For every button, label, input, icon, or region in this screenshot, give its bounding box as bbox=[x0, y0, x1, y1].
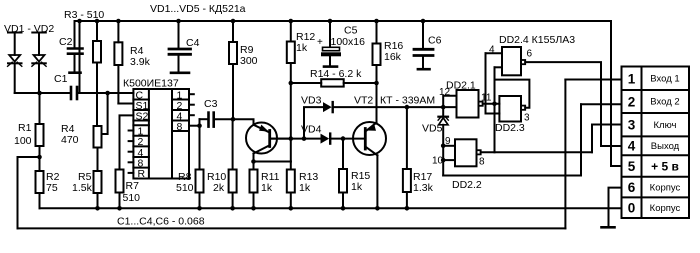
label R17 1.3k bbox=[413, 171, 434, 194]
label C2 bbox=[59, 36, 73, 48]
svg-text:C3: C3 bbox=[204, 98, 218, 110]
junction ground/R7 bbox=[117, 206, 122, 211]
label DD2.3 pin 3 bbox=[495, 113, 530, 135]
svg-text:C5: C5 bbox=[344, 25, 358, 37]
junction VD4/R15/VT2 base bbox=[341, 136, 346, 141]
svg-text:3.9k: 3.9k bbox=[130, 56, 151, 68]
svg-text:DD2.1: DD2.1 bbox=[446, 80, 476, 92]
wire input node C1 line bbox=[15, 92, 71, 94]
wire pin 6 ground drop bbox=[609, 188, 622, 227]
pin stub IC right pin 4 bbox=[189, 114, 194, 116]
svg-text:2k: 2k bbox=[213, 182, 225, 194]
transistor VT2 bbox=[353, 65, 386, 208]
svg-text:+: + bbox=[317, 37, 323, 48]
resistor R14 horizontal bbox=[291, 79, 377, 86]
svg-text:Вход 1: Вход 1 bbox=[650, 74, 679, 85]
resistor R4 3.9k bbox=[114, 21, 133, 104]
svg-text:12: 12 bbox=[439, 87, 451, 98]
wire +5V top rail bbox=[75, 20, 612, 22]
wire VD3 node to DD2.1 inputs bbox=[407, 106, 457, 108]
svg-text:C1: C1 bbox=[54, 73, 68, 85]
svg-text:R7: R7 bbox=[126, 180, 140, 192]
wire +5 riser to pin 5 bbox=[611, 21, 622, 166]
svg-text:3: 3 bbox=[524, 113, 530, 124]
junction ground/R17 bbox=[405, 206, 410, 211]
label R15 1k bbox=[351, 170, 370, 193]
svg-text:8: 8 bbox=[177, 121, 183, 133]
label VD4 bbox=[301, 124, 322, 136]
pin stub IC right pin 1 bbox=[189, 93, 194, 95]
svg-text:1k: 1k bbox=[261, 182, 273, 194]
svg-text:8: 8 bbox=[479, 157, 485, 168]
label VD3 bbox=[301, 95, 322, 107]
resistor R2 bbox=[36, 171, 44, 208]
junction DD2.1 inputs/VD5 bbox=[441, 105, 446, 110]
diode VD2 bbox=[32, 33, 46, 94]
resistor R4 470 bbox=[94, 126, 102, 171]
junction VD2/R1 input node bbox=[37, 91, 42, 96]
junction rail/C6 bbox=[421, 19, 426, 24]
svg-text:75: 75 bbox=[46, 182, 58, 194]
svg-text:100x16: 100x16 bbox=[331, 36, 366, 48]
wire IC right pin 8 to R8/C3 bbox=[189, 125, 200, 127]
svg-text:Ключ: Ключ bbox=[654, 120, 677, 131]
wire input 1 from R1/R2 node to bottom bbox=[18, 157, 40, 228]
wire DD2.4 lower input stub bbox=[495, 66, 503, 68]
svg-text:1k: 1k bbox=[299, 182, 311, 194]
label R4 3.9k bbox=[130, 45, 151, 68]
wire pin 4 stub bbox=[601, 145, 622, 147]
label C3 bbox=[204, 98, 218, 110]
resistor R17 bbox=[403, 107, 411, 208]
svg-text:9: 9 bbox=[445, 136, 451, 147]
svg-text:1k: 1k bbox=[351, 181, 363, 193]
junction ground/R8 bbox=[197, 206, 202, 211]
svg-text:Выход: Выход bbox=[651, 141, 680, 152]
svg-text:300: 300 bbox=[240, 55, 258, 67]
label C6 bbox=[428, 35, 442, 47]
label VD5 bbox=[422, 123, 443, 135]
junction VD5/DD2.2 pin9 bbox=[441, 144, 446, 149]
junction ground/R11 bbox=[251, 206, 256, 211]
svg-text:1k: 1k bbox=[296, 42, 308, 54]
junction ground/R13 bbox=[289, 206, 294, 211]
svg-text:VT2: VT2 bbox=[354, 95, 373, 107]
svg-text:0: 0 bbox=[628, 201, 636, 216]
junction rail/C4 bbox=[176, 19, 181, 24]
IC pin names bbox=[136, 89, 183, 180]
svg-text:1.5k: 1.5k bbox=[72, 182, 93, 194]
label DD2.1 pins 12 11 bbox=[439, 80, 492, 104]
svg-text:6: 6 bbox=[527, 49, 533, 60]
svg-text:КТ - 339АМ: КТ - 339АМ bbox=[380, 95, 435, 107]
label R16 16k bbox=[384, 40, 403, 63]
wire C3 node to VT1 emitter bbox=[233, 119, 254, 125]
junction ground/R5 bbox=[95, 206, 100, 211]
junction VT2 collector node/R17 bbox=[405, 105, 410, 110]
pin stub IC left pin 2 bbox=[129, 140, 134, 142]
svg-text:510: 510 bbox=[176, 182, 194, 194]
capacitor C5 electrolytic bbox=[322, 21, 341, 67]
resistor R1 bbox=[36, 93, 44, 171]
svg-text:C6: C6 bbox=[428, 35, 442, 47]
junction rail/C1 bias bbox=[77, 19, 82, 24]
junction IC pin8/R8 bbox=[197, 123, 202, 128]
wire bottom input 1 run bbox=[18, 227, 566, 229]
junction ground/VT2 emitter bbox=[375, 206, 380, 211]
svg-text:S2: S2 bbox=[136, 110, 149, 122]
wire DD2.1 out bus vertical bbox=[494, 67, 496, 152]
connector pin numbers 1-6,0 bbox=[628, 71, 636, 215]
svg-text:470: 470 bbox=[61, 134, 79, 146]
pin stub IC left pin R bbox=[129, 172, 134, 174]
junction C1 node/R4 jog bbox=[105, 91, 110, 96]
diode VD1 bbox=[8, 33, 22, 94]
label VD1...VD5 - КД521а bbox=[150, 3, 246, 15]
resistor R3 bbox=[93, 21, 101, 126]
svg-text:100: 100 bbox=[14, 135, 32, 147]
pin stub IC right pin 2 bbox=[189, 104, 194, 106]
junction rail/R9 bbox=[231, 19, 236, 24]
pin stub IC left pin 4 bbox=[129, 151, 134, 153]
gate DD2.4 bbox=[486, 47, 602, 146]
wire S2 to R7 bbox=[120, 115, 134, 169]
wire pin 1 stub bbox=[565, 79, 621, 81]
resistor R13 bbox=[287, 162, 295, 209]
connector pin labels bbox=[650, 74, 681, 214]
wire base line VT1 to VD4 bbox=[270, 138, 304, 140]
svg-text:VD5: VD5 bbox=[422, 123, 443, 135]
label R12 1k bbox=[296, 31, 315, 54]
label R2 75 bbox=[46, 171, 60, 194]
label R4 470 bbox=[61, 123, 79, 146]
resistor R8 bbox=[196, 170, 204, 209]
wire input 1 riser to pin 1 bbox=[564, 80, 566, 229]
svg-text:К500ИЕ137: К500ИЕ137 bbox=[123, 78, 179, 90]
svg-text:C4: C4 bbox=[186, 37, 200, 49]
junction DD2.1 out bus bbox=[492, 101, 497, 106]
svg-text:R14 - 6.2 k: R14 - 6.2 k bbox=[310, 68, 362, 80]
wire R4-470 jog from C1 node bbox=[102, 93, 108, 134]
capacitor C1 bbox=[71, 87, 133, 99]
label R3 - 510 bbox=[64, 9, 104, 21]
wire ground rail bbox=[40, 207, 622, 209]
junction VT1 base/R12 line bbox=[289, 136, 294, 141]
svg-text:Корпус: Корпус bbox=[650, 182, 681, 193]
gate DD2.3 bbox=[486, 53, 530, 121]
svg-text:+ 5 в: + 5 в bbox=[651, 159, 679, 173]
svg-text:C1...C4,C6 - 0.068: C1...C4,C6 - 0.068 bbox=[117, 216, 205, 228]
diode VD3 bbox=[304, 102, 407, 139]
label R1 100 bbox=[14, 122, 32, 147]
junction R1/R2 node bbox=[37, 155, 42, 160]
label R5 1.5k bbox=[72, 171, 93, 194]
resistor R7 bbox=[116, 170, 124, 209]
svg-text:2: 2 bbox=[628, 95, 636, 110]
label C4 bbox=[186, 37, 200, 49]
label R13 1k bbox=[299, 171, 318, 194]
resistor R12 bbox=[287, 21, 295, 162]
junction ground/R15 bbox=[341, 206, 346, 211]
wire Вход 2 run from VD5/DD2.2 inputs to pin 2 bbox=[443, 104, 581, 175]
label К500ИЕ137 bbox=[123, 78, 179, 90]
junction R12/R14 bbox=[289, 81, 294, 86]
junction rail/R3 bbox=[95, 19, 100, 24]
IC DD1 К500ИЕ137 bbox=[133, 89, 189, 179]
svg-text:Вход 2: Вход 2 bbox=[650, 97, 679, 108]
resistor R11 bbox=[250, 162, 258, 209]
svg-text:1: 1 bbox=[628, 71, 636, 86]
wire VT1 collector run bbox=[254, 161, 291, 163]
svg-text:Корпус: Корпус bbox=[650, 203, 681, 214]
label C5 100x16 bbox=[317, 25, 365, 49]
label VT2 КТ-339АМ bbox=[354, 95, 435, 107]
svg-text:16k: 16k bbox=[384, 51, 402, 63]
ground terminal bar bbox=[602, 226, 615, 229]
junction VT1 collector/R11 bbox=[251, 159, 256, 164]
wire rail to C1 bias bbox=[79, 21, 81, 92]
junction rail/R16 bbox=[374, 19, 379, 24]
transistor VT1 bbox=[246, 123, 291, 162]
junction ground/R10 bbox=[230, 206, 235, 211]
svg-text:4: 4 bbox=[489, 45, 495, 56]
svg-text:6: 6 bbox=[628, 180, 636, 195]
svg-text:DD2.4 К155ЛА3: DD2.4 К155ЛА3 bbox=[499, 34, 575, 46]
label VD1 - VD2 bbox=[4, 23, 54, 35]
svg-text:1.3k: 1.3k bbox=[413, 182, 434, 194]
svg-text:5: 5 bbox=[628, 159, 636, 174]
junction VD3/VD4 tie bbox=[302, 136, 307, 141]
resistor R9 bbox=[229, 21, 237, 119]
label R9 300 bbox=[240, 44, 258, 67]
gate DD2.1 bbox=[443, 90, 499, 118]
capacitor C3 bbox=[200, 113, 234, 127]
svg-text:4: 4 bbox=[628, 139, 636, 154]
pin stub IC left pin 8 bbox=[129, 161, 134, 163]
junction rail/C5 bbox=[328, 19, 333, 24]
label C1 bbox=[54, 73, 68, 85]
label DD2.2 pins 9 10 8 bbox=[432, 136, 485, 191]
pin stub IC left pin 1 bbox=[129, 130, 134, 132]
junction rail/R4 bbox=[116, 19, 121, 24]
label R11 1k bbox=[261, 171, 280, 194]
svg-text:510: 510 bbox=[123, 192, 141, 204]
junction R14/VT2 collector bbox=[374, 81, 379, 86]
capacitor C4 bbox=[169, 21, 191, 73]
resistor R15 bbox=[339, 139, 347, 209]
label R7 510 bbox=[123, 180, 141, 204]
diode VD5 bbox=[438, 107, 448, 175]
label C1...C4,C6 - 0.068 bbox=[117, 216, 205, 228]
svg-text:VD4: VD4 bbox=[301, 124, 322, 136]
svg-text:R: R bbox=[138, 168, 146, 180]
svg-text:DD2.2: DD2.2 bbox=[452, 179, 482, 191]
connector block bbox=[622, 67, 690, 219]
label R14 6.2k bbox=[310, 68, 362, 80]
capacitor C6 bbox=[414, 21, 433, 69]
label R8 510 bbox=[176, 171, 194, 194]
resistor R16 bbox=[373, 21, 381, 123]
junction VD5/DD2.2 pin10 bbox=[441, 158, 446, 163]
svg-text:R1: R1 bbox=[18, 122, 32, 134]
wire Ключ riser to pin 3 bbox=[592, 125, 622, 153]
junction C3/R9/R10 bbox=[231, 117, 236, 122]
gate DD2.2 bbox=[443, 139, 592, 166]
svg-text:VD3: VD3 bbox=[301, 95, 322, 107]
label R10 2k bbox=[207, 171, 226, 194]
capacitor C2 bbox=[68, 21, 83, 73]
svg-text:3: 3 bbox=[628, 118, 636, 133]
svg-text:C2: C2 bbox=[59, 36, 73, 48]
svg-text:VD1...VD5 - КД521а: VD1...VD5 - КД521а bbox=[150, 3, 246, 15]
svg-text:DD2.3: DD2.3 bbox=[495, 122, 525, 134]
resistor R10 bbox=[229, 119, 237, 208]
diode VD4 bbox=[304, 134, 365, 144]
junction rail/R12 bbox=[289, 19, 294, 24]
resistor R5 bbox=[94, 171, 102, 208]
wire pin 2 stub bbox=[581, 103, 622, 105]
label DD2.4 К155ЛА3 pins 4 6 bbox=[489, 34, 575, 60]
